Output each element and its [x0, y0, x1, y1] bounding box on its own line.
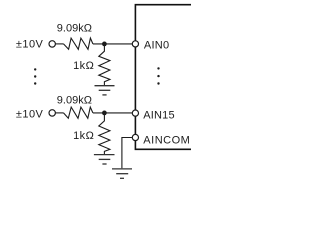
svg-text:1kΩ: 1kΩ: [73, 130, 94, 142]
svg-text:AIN0: AIN0: [144, 40, 169, 52]
terminal circle input 1: [49, 41, 55, 47]
pin AIN15 terminal: [132, 110, 138, 116]
ellipsis inside box: [157, 67, 159, 85]
pin AINCOM terminal: [132, 134, 138, 140]
resistor 9.09kΩ bottom (horizontal): [64, 107, 93, 118]
svg-text:9.09kΩ: 9.09kΩ: [57, 23, 92, 35]
resistor 9.09kΩ top (horizontal): [64, 38, 93, 49]
svg-text:AINCOM: AINCOM: [143, 134, 190, 146]
junction node bottom: [102, 111, 107, 116]
wire R top to AIN0: [93, 43, 132, 45]
svg-text:AIN15: AIN15: [143, 109, 175, 121]
svg-text:±10V: ±10V: [16, 108, 44, 120]
ADC box outline: [135, 5, 191, 150]
pin AIN0 terminal: [132, 41, 138, 47]
ground bottom (below 1k resistor): [94, 155, 115, 164]
ellipsis left: [34, 68, 36, 85]
ground top (below 1k resistor): [95, 86, 115, 95]
wire AINCOM to ground: [122, 138, 132, 169]
junction node top: [102, 42, 107, 47]
svg-text:9.09kΩ: 9.09kΩ: [57, 95, 92, 107]
resistor 1kΩ bottom (vertical): [99, 114, 110, 155]
terminal circle input 2: [49, 110, 55, 116]
wire R bottom to AIN15: [93, 112, 132, 114]
resistor 1kΩ top (vertical): [99, 45, 110, 86]
wire input2 to R 9.09k bottom: [56, 112, 64, 114]
svg-text:1kΩ: 1kΩ: [73, 60, 94, 72]
wire input1 to R 9.09k top: [56, 43, 64, 45]
svg-text:±10V: ±10V: [16, 39, 44, 51]
ground AINCOM: [112, 169, 132, 178]
